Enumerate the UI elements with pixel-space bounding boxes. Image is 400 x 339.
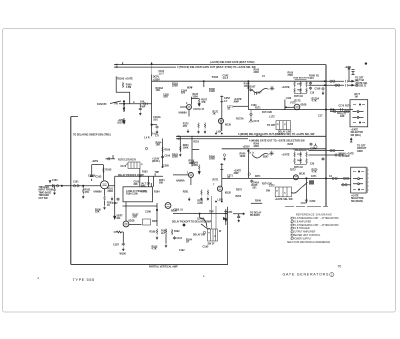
svg-text:6DJ8: 6DJ8	[129, 220, 135, 223]
svg-text:L172: L172	[269, 115, 275, 118]
svg-text:6AW8A: 6AW8A	[176, 180, 185, 183]
wire rail y176.3	[115, 175, 163, 177]
wire box to tube5	[125, 202, 127, 221]
svg-text:1 TO A PRECEDING UNIT ... ATT: 1 TO A PRECEDING UNIT ... ATTENUATORS	[291, 217, 339, 220]
wire second vertical into box top	[150, 183, 152, 187]
svg-text:R165: R165	[193, 94, 199, 96]
svg-text:R245: R245	[252, 184, 258, 187]
wire vertical x306.4 down	[301, 178, 307, 203]
resistor divider network box lower	[294, 150, 308, 164]
svg-text:TO DELAY: TO DELAY	[250, 212, 262, 215]
connector circle left lower	[145, 147, 147, 149]
svg-text:47K: 47K	[201, 101, 206, 104]
svg-text:6DJ8: 6DJ8	[299, 173, 305, 176]
svg-text:220K: 220K	[254, 72, 260, 74]
wire big box right vertical	[227, 207, 229, 265]
wire into selector box1	[330, 111, 350, 113]
svg-text:L164: L164	[216, 131, 222, 134]
svg-text:SELECTOR: SELECTOR	[351, 132, 364, 134]
svg-text:C178: C178	[121, 166, 127, 168]
svg-text:R163: R163	[106, 169, 112, 172]
svg-text:A A.C: A A.C	[152, 133, 158, 136]
svg-text:R183: R183	[142, 172, 148, 174]
svg-text:R272: R272	[236, 188, 242, 191]
svg-text:SW DEL'D: SW DEL'D	[355, 86, 366, 88]
capacitor C164A branch second cluster	[161, 139, 164, 168]
svg-text:C191: C191	[177, 238, 183, 240]
svg-text:R171: R171	[255, 108, 261, 110]
svg-text:6DJ8: 6DJ8	[171, 210, 177, 213]
svg-text:R251: R251	[183, 191, 189, 194]
svg-text:R252: R252	[194, 142, 200, 144]
block relay	[143, 219, 151, 225]
wire output row y81.2	[326, 80, 344, 82]
svg-text:C248: C248	[310, 148, 316, 151]
svg-text:R174 330: R174 330	[262, 111, 273, 114]
svg-text:+GATE SEL: +GATE SEL	[355, 82, 368, 85]
switch box1 +GATE SELECTOR	[350, 100, 368, 127]
node diamond	[183, 224, 185, 226]
tube V161b circle	[218, 118, 223, 123]
svg-text:TO CRT: TO CRT	[267, 125, 276, 127]
svg-text:1.5-7: 1.5-7	[223, 77, 229, 80]
svg-text:TIME-BASE: TIME-BASE	[39, 191, 52, 194]
svg-text:4 (MAIN) GATE OUT TO +GATE SEL: 4 (MAIN) GATE OUT TO +GATE SELECTOR SW	[249, 140, 305, 143]
wire tube right	[129, 224, 142, 226]
svg-text:T342: T342	[212, 75, 219, 79]
svg-text:100K: 100K	[209, 90, 215, 93]
wire right vertical x326	[325, 65, 327, 207]
svg-text:250K: 250K	[108, 191, 114, 193]
svg-text:47K: 47K	[183, 125, 188, 128]
capacitor C187	[122, 243, 125, 247]
wire rails lower to x326	[309, 151, 327, 156]
svg-text:WP: WP	[142, 106, 146, 109]
svg-text:22K: 22K	[95, 211, 100, 214]
svg-text:SIG: SIG	[117, 218, 121, 220]
capacitor pair right of divider	[309, 82, 312, 86]
svg-text:AMP: AMP	[234, 172, 240, 175]
capacitor WP	[139, 104, 141, 107]
tube V252b circle	[217, 186, 222, 191]
svg-text:DELAY LINE: DELAY LINE	[278, 130, 292, 133]
connector TP on bus2	[314, 145, 317, 148]
svg-text:CKT SW: CKT SW	[39, 198, 49, 200]
svg-text:220K: 220K	[193, 97, 199, 99]
svg-text:4 TO B TRIGGER: 4 TO B TRIGGER	[291, 228, 310, 230]
ground under tube V161	[111, 197, 113, 201]
svg-text:V173: V173	[290, 102, 296, 104]
wire corner top	[71, 116, 78, 118]
svg-text:164: 164	[140, 101, 145, 104]
svg-text:C265: C265	[163, 164, 169, 167]
wire stub left y106.3	[233, 105, 248, 107]
node star mark	[270, 86, 275, 91]
svg-text:+225V: +225V	[92, 161, 99, 163]
tube V161 grid loop	[180, 97, 199, 117]
tube V193b circle	[165, 203, 171, 209]
svg-text:220K: 220K	[254, 146, 260, 148]
svg-text:1K: 1K	[186, 241, 189, 244]
capacitor cluster x250.8 upper	[249, 88, 252, 92]
svg-text:1M: 1M	[355, 97, 358, 99]
switch wafer box lower-mid	[275, 187, 291, 197]
connector circles on rail y178.4	[332, 177, 334, 179]
svg-text:R254: R254	[159, 179, 165, 182]
resistor R167	[198, 98, 200, 104]
svg-text:1.4 R: 1.4 R	[144, 137, 150, 140]
svg-text:R189: R189	[150, 231, 156, 234]
svg-text:TDP: TDP	[209, 212, 214, 214]
svg-text:+125V: +125V	[118, 120, 125, 122]
wire pigtail squiggle	[252, 89, 269, 93]
svg-text:C271: C271	[311, 176, 317, 178]
svg-text:L272: L272	[269, 184, 275, 187]
node diamond arrow at right vertical	[224, 218, 226, 220]
svg-text:CKT VIA: CKT VIA	[355, 79, 365, 82]
svg-text:(DCPL): (DCPL)	[118, 123, 126, 125]
svg-text:22K: 22K	[133, 216, 138, 219]
resistor R163	[103, 167, 105, 173]
svg-text:1K: 1K	[213, 113, 216, 116]
svg-text:C161: C161	[73, 182, 79, 184]
svg-text:.001: .001	[309, 77, 314, 80]
svg-text:+L.A.B: +L.A.B	[140, 191, 148, 194]
svg-text:C173: C173	[254, 121, 260, 123]
capacitor C164A branch	[152, 124, 157, 126]
node star mark lower	[269, 151, 274, 156]
wire bus1 second	[114, 66, 176, 68]
svg-text:C186: C186	[145, 210, 151, 213]
svg-text:.001: .001	[252, 188, 257, 190]
svg-text:(+GATE) DELAYED GATE (MULT SYN: (+GATE) DELAYED GATE (MULT SYNC)	[210, 61, 255, 64]
svg-text:SW: SW	[266, 190, 271, 193]
wire bottom rail y178.5 lower	[222, 177, 351, 179]
inductor L166 vertical	[284, 100, 286, 110]
svg-text:AMP: AMP	[234, 101, 240, 104]
wire emphasis bar	[251, 202, 262, 204]
wire curved hook down	[200, 214, 207, 228]
svg-text:1.5-7: 1.5-7	[159, 74, 165, 76]
resistor x172	[171, 229, 173, 235]
svg-text:R176: R176	[345, 106, 351, 108]
junction cluster under tube2 lower	[215, 163, 223, 202]
svg-text:C169: C169	[165, 156, 171, 158]
wire stub tube right	[106, 158, 116, 160]
svg-text:R184: R184	[154, 191, 160, 194]
wire vertical x114.7	[114, 176, 116, 213]
svg-text:SWP: SWP	[152, 221, 158, 223]
svg-text:C176: C176	[339, 106, 345, 108]
svg-text:C167: C167	[256, 93, 262, 95]
svg-text:GRID: GRID	[357, 151, 363, 153]
svg-text:1.5M: 1.5M	[126, 86, 131, 89]
svg-text:R271: R271	[213, 178, 219, 181]
svg-text:TRIGGER: TRIGGER	[39, 187, 50, 189]
svg-text:2 TO B AMPLIFIER: 2 TO B AMPLIFIER	[291, 220, 311, 223]
svg-text:R246: R246	[189, 160, 195, 163]
wire trigger input	[45, 185, 115, 187]
svg-text:DELAY PICKOFF COMP: DELAY PICKOFF COMP	[118, 174, 144, 177]
capacitor coupling at x341.7	[341, 108, 343, 111]
svg-text:B267: B267	[263, 156, 269, 158]
connector TP circle lower	[248, 173, 250, 175]
svg-text:W190: W190	[120, 252, 127, 255]
connector pair mid input	[73, 185, 75, 187]
svg-text:4.7K: 4.7K	[152, 248, 157, 251]
delay line network box	[276, 121, 291, 130]
svg-text:100K: 100K	[183, 147, 189, 150]
svg-text:C195: C195	[203, 245, 209, 248]
svg-text:TRIGGER: TRIGGER	[39, 195, 50, 197]
svg-text:+GATE: +GATE	[351, 195, 359, 198]
svg-text:6AW8A: 6AW8A	[94, 191, 103, 194]
svg-text:2.2M: 2.2M	[197, 203, 202, 205]
svg-text:4 (TRACE) DELAYED GATE OUT (MU: 4 (TRACE) DELAYED GATE OUT (MULT. SYNC) …	[177, 66, 256, 69]
svg-text:R192: R192	[174, 231, 180, 233]
svg-text:PICKOFF: PICKOFF	[250, 215, 261, 217]
svg-text:SEE 8 FOR MECHANICAL REFERENCE: SEE 8 FOR MECHANICAL REFERENCE	[287, 241, 330, 244]
svg-text:REFERENCE DIAGRAMS: REFERENCE DIAGRAMS	[296, 213, 332, 217]
svg-text:10K: 10K	[156, 144, 161, 147]
svg-text:B167: B167	[250, 86, 256, 89]
node bus2 crossing marks	[256, 135, 262, 137]
svg-text:CIRCUIT: CIRCUIT	[357, 148, 367, 150]
tube V252a circle	[188, 172, 193, 177]
resistor second pair lower tubes	[207, 190, 209, 196]
node bullet top right	[365, 62, 367, 64]
svg-text:TD160 +GATE: TD160 +GATE	[117, 78, 133, 81]
wire rails to right vertical	[309, 84, 327, 86]
svg-text:GATE GENERATORS: GATE GENERATORS	[283, 273, 330, 277]
svg-text:C192: C192	[179, 250, 185, 252]
svg-text:C163A: C163A	[88, 174, 96, 177]
svg-text:6 HEATER UNIT CONTROL: 6 HEATER UNIT CONTROL	[291, 234, 321, 237]
wire rail y86.2	[152, 80, 326, 82]
svg-text:TO CRT: TO CRT	[357, 146, 366, 148]
svg-text:SW (DEL): SW (DEL)	[351, 135, 362, 137]
node circled number	[330, 273, 334, 277]
svg-text:5 OUTPUT AMPLIFIER: 5 OUTPUT AMPLIFIER	[291, 231, 316, 234]
capacitor left of box	[117, 198, 120, 202]
svg-text:6DJ8: 6DJ8	[225, 192, 231, 195]
svg-text:C160: C160	[52, 180, 58, 182]
capacitor C249	[322, 157, 325, 161]
svg-text:R256: R256	[236, 196, 242, 198]
svg-text:1K: 1K	[107, 205, 110, 207]
node tick above bus	[122, 62, 124, 64]
switch wafer box bottom	[208, 229, 218, 241]
resistor right cluster	[165, 229, 167, 235]
svg-text:R271: R271	[255, 176, 261, 178]
svg-text:R181: R181	[108, 189, 114, 191]
svg-text:R253: R253	[197, 201, 203, 203]
svg-text:INPUT FROM: INPUT FROM	[39, 190, 53, 192]
svg-text:10K: 10K	[156, 89, 161, 92]
wire bottom rail y109.6	[248, 109, 353, 111]
wire vertical x180.3	[179, 136, 181, 152]
svg-text:33K: 33K	[340, 115, 345, 118]
tube V252 grid loop	[173, 149, 199, 185]
svg-text:MD): MD)	[141, 186, 146, 188]
capacitor output	[346, 80, 348, 87]
tube V173a circle	[294, 104, 300, 110]
svg-text:(DCPL): (DCPL)	[152, 161, 160, 163]
wire verticals to wafer box	[212, 196, 217, 229]
svg-text:270K: 270K	[297, 154, 302, 156]
op amp tube V161a circle	[187, 105, 192, 110]
svg-text:DELAY PICKOFF TO DELAYED SWP: DELAY PICKOFF TO DELAYED SWP	[172, 221, 212, 224]
tube V161 big circle	[101, 181, 109, 189]
svg-text:7 POWER SUPPLY: 7 POWER SUPPLY	[291, 238, 312, 240]
svg-text:L253: L253	[218, 200, 224, 202]
svg-text:VERT: VERT	[117, 216, 124, 218]
svg-text:+GATE: +GATE	[282, 86, 290, 89]
wire big box bottom	[71, 263, 228, 265]
block delay pickoff box	[123, 187, 153, 202]
svg-text:C182: C182	[112, 203, 118, 205]
svg-text:820: 820	[181, 92, 186, 95]
svg-text:+12.6V: +12.6V	[152, 159, 160, 161]
connector stack top right	[352, 70, 355, 75]
wire pigtail squiggle lower	[252, 154, 269, 158]
leader K162	[110, 101, 121, 104]
svg-text:+GATE SEL SW: +GATE SEL SW	[275, 198, 294, 201]
svg-text:C26: C26	[310, 164, 315, 166]
svg-text:50K: 50K	[159, 183, 164, 185]
wire stub y184.8	[341, 184, 351, 186]
capacitor right	[173, 236, 176, 240]
wire output rows lower	[326, 151, 344, 156]
wire vertical x248.4 lower	[247, 149, 249, 178]
capacitor input pair	[53, 184, 55, 187]
ground under junction	[123, 104, 125, 106]
svg-text:R178 C178 R179: R178 C178 R179	[118, 160, 136, 162]
svg-text:C168: C168	[315, 88, 321, 91]
resistor pair under lower tubes	[201, 190, 203, 196]
svg-text:SELECTOR: SELECTOR	[351, 198, 364, 200]
wire vertical x151.6	[151, 75, 153, 137]
wire vertical x225.8	[225, 209, 227, 225]
svg-text:+225V: +225V	[153, 78, 160, 81]
tube electrodes	[188, 106, 191, 108]
resistor divider network cluster	[294, 80, 308, 94]
svg-text:70: 70	[338, 265, 342, 269]
svg-text:R170 1K: R170 1K	[294, 96, 303, 98]
svg-text:6DJ8: 6DJ8	[225, 124, 231, 127]
wire vertical x248.4	[247, 81, 249, 109]
svg-text:(MAIN) +GATE: (MAIN) +GATE	[338, 153, 354, 156]
svg-text:R186 C186: R186 C186	[126, 194, 138, 196]
svg-text:30K: 30K	[134, 184, 139, 186]
svg-text:K162 BF: K162 BF	[97, 103, 107, 106]
wire vertical x349 top	[348, 67, 350, 81]
node small triangle marker	[49, 181, 51, 183]
wire line under box	[123, 205, 158, 207]
svg-text:1MEG: 1MEG	[189, 163, 196, 165]
svg-text:ALT: ALT	[161, 232, 166, 235]
svg-text:270K: 270K	[297, 84, 302, 86]
svg-text:SW 2F: SW 2F	[208, 244, 216, 246]
svg-text:TYPE 555: TYPE 555	[73, 277, 95, 282]
inductor column x162.5	[162, 139, 164, 168]
svg-text:+225V: +225V	[345, 67, 352, 69]
svg-text:TO B SWP: TO B SWP	[338, 156, 350, 158]
wire verticals into pickoff box top	[149, 176, 154, 187]
svg-text:R168 R169 R170: R168 R169 R170	[294, 78, 310, 80]
svg-text:4.7K: 4.7K	[312, 100, 317, 103]
wire horizontal y213.6	[173, 213, 228, 215]
diode circle	[144, 103, 146, 105]
svg-text:C17: C17	[318, 114, 323, 117]
svg-text:180K: 180K	[297, 90, 302, 92]
svg-text:R268 R269 R270: R268 R269 R270	[294, 149, 310, 151]
component block on rail	[309, 180, 314, 184]
capacitor C245	[250, 180, 253, 184]
junction cluster under tube2	[215, 118, 222, 134]
svg-text:4 (MAIN) DELAYED GATE OUT (MUL: 4 (MAIN) DELAYED GATE OUT (MULT. SYNC) T…	[238, 133, 315, 136]
svg-text:12AU6: 12AU6	[197, 218, 205, 221]
svg-text:.001: .001	[153, 119, 158, 122]
node bus1 left arrowhead	[115, 64, 117, 66]
svg-text:R270 1K: R270 1K	[294, 167, 303, 169]
svg-text:R172A: R172A	[236, 117, 244, 120]
wire junction row y103.8	[119, 103, 152, 105]
block TD outline	[116, 76, 130, 103]
wire vertical x157	[156, 203, 158, 226]
tube V173b circle lower	[293, 175, 298, 180]
svg-text:+225V: +225V	[243, 146, 250, 149]
wire left vertical big box	[70, 117, 72, 265]
svg-text:.005: .005	[163, 96, 168, 99]
resistor 15 cluster	[233, 214, 244, 216]
ground under R172	[187, 129, 189, 133]
wire stub x203.8	[203, 81, 205, 87]
svg-text:DELAY SW: DELAY SW	[193, 234, 206, 237]
svg-text:+GATE: +GATE	[351, 129, 359, 132]
svg-text:100K: 100K	[209, 158, 215, 161]
svg-text:220K: 220K	[172, 85, 178, 88]
svg-text:C262: C262	[310, 200, 316, 203]
ruler ticks right of box2	[368, 167, 369, 193]
svg-text:220K: 220K	[193, 165, 199, 167]
svg-text:6AW8A: 6AW8A	[179, 112, 188, 115]
svg-text:180K: 180K	[297, 160, 302, 162]
resistor horizontal	[114, 231, 124, 233]
node +225V entry arrow	[151, 62, 153, 74]
ground crow-foot under rail x251	[249, 110, 253, 123]
ground under C164A	[156, 130, 158, 134]
transformer T342 vertical	[221, 96, 223, 132]
svg-text:+GATE: +GATE	[282, 154, 290, 157]
svg-text:47K: 47K	[85, 191, 90, 194]
svg-text:L166: L166	[286, 98, 292, 100]
svg-text:C187: C187	[113, 244, 119, 247]
svg-text:6DJ8: 6DJ8	[301, 104, 307, 107]
svg-text:4.7K: 4.7K	[312, 171, 317, 174]
svg-text:C166: C166	[251, 105, 257, 107]
wire x192 from bus2	[191, 136, 193, 149]
capacitor C262	[305, 199, 308, 203]
svg-text:SW (MAIN): SW (MAIN)	[351, 200, 363, 203]
svg-text:R273: R273	[290, 170, 296, 172]
svg-text:3 TO A PRECEDING UNIT ... ATT: 3 TO A PRECEDING UNIT ... ATTENUATORS	[291, 224, 339, 227]
notes dashed separator	[285, 205, 328, 207]
capacitor C163 branch above	[92, 165, 104, 181]
svg-text:TO DELAYING SWEEP GEN (TRIG): TO DELAYING SWEEP GEN (TRIG)	[73, 133, 111, 136]
comparator bars box	[126, 162, 143, 168]
svg-text:C163: C163	[96, 176, 102, 179]
